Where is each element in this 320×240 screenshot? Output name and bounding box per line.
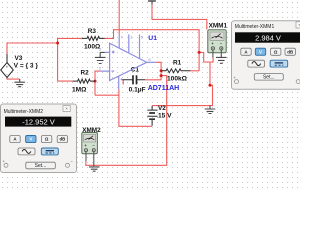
instrument panel XMM1 [232,21,308,90]
svg-text:AD711AH: AD711AH [148,85,180,92]
svg-text:V3: V3 [15,55,23,62]
capacitor C1 [122,75,145,84]
svg-text:Ω: Ω [274,49,278,54]
svg-text:×: × [65,106,68,111]
svg-text:2.984 V: 2.984 V [255,34,281,43]
ground for V3 [14,79,25,87]
multimeter icon XMM1 [208,30,226,57]
svg-text:Ω: Ω [45,137,49,142]
node junction R2 right [94,80,97,83]
svg-text:V: V [259,49,262,54]
svg-text:0.1µF: 0.1µF [129,86,146,93]
svg-text:dB: dB [59,137,65,142]
wire R1 right to riser [190,70,199,72]
wire V2 plus to ground rail [152,62,212,106]
ground under XMM1 minus [216,54,227,63]
svg-text:V: V [29,137,32,142]
svg-text:1MΩ: 1MΩ [72,86,87,93]
source V3 [1,54,14,78]
svg-text:R2: R2 [81,70,90,77]
instrument panel XMM2 [1,104,77,173]
svg-text:-12.952 V: -12.952 V [22,117,55,126]
node junction ground rail [209,84,212,87]
svg-text:×: × [298,23,300,28]
svg-text:U1: U1 [148,35,157,42]
battery V2 [147,106,157,126]
node junction XMM1 branch [198,51,201,54]
svg-text:XMM2: XMM2 [82,127,101,134]
svg-text:XMM1: XMM1 [209,23,228,30]
svg-text:R1: R1 [173,59,182,66]
node junction J1 [56,42,59,45]
svg-text:V = { 3 }: V = { 3 } [14,63,39,70]
node junction output R1 [160,69,163,72]
svg-text:+: + [6,65,9,70]
wire op-amp pin7 to top [118,0,120,35]
ground at op-amp pin3 [95,52,106,63]
wire V3 top to junction J1 [7,43,58,54]
wire C1 left stub [122,80,124,85]
svg-text:R3: R3 [88,28,97,35]
svg-text:Multimeter-XMM2: Multimeter-XMM2 [4,109,44,115]
svg-text:V2: V2 [158,105,166,112]
svg-text:15 V: 15 V [158,112,172,119]
resistor R3 [82,36,105,40]
wire supply rail from top ground to XMM1 icon [152,5,207,30]
svg-text:Set...: Set... [35,163,47,169]
wire R2 node to pin2 and down [95,71,100,95]
wire R3 right up and across to XMM1 riser [104,30,199,71]
wire C1 right to output jog [145,76,161,80]
wire V3 bottom to ground [7,77,20,80]
wire feedback bottom horizontal [95,94,119,96]
wire op-amp pin4 down to V2 minus [119,89,152,126]
ground at top (cropped) [148,1,156,5]
wire op-amp output down with jog, V- rail to bottom [86,62,167,165]
svg-text:dB: dB [287,49,293,54]
ground under XMM2 minus [89,167,100,171]
svg-text:Multimeter-XMM1: Multimeter-XMM1 [235,24,275,30]
multimeter icon XMM2 [82,133,98,167]
wire J1 up to R3 left [58,38,82,43]
wire branch to XMM1 plus terminal [199,52,213,62]
resistor R2 [73,79,96,83]
wire J1 down to R2 left [58,43,73,81]
svg-text:100kΩ: 100kΩ [167,76,188,83]
resistor R1 [161,69,190,73]
node junction output jog [160,74,163,77]
svg-text:Set...: Set... [263,75,275,81]
op-amp U1 [100,35,156,90]
ground at V2 plus rail [205,106,216,114]
